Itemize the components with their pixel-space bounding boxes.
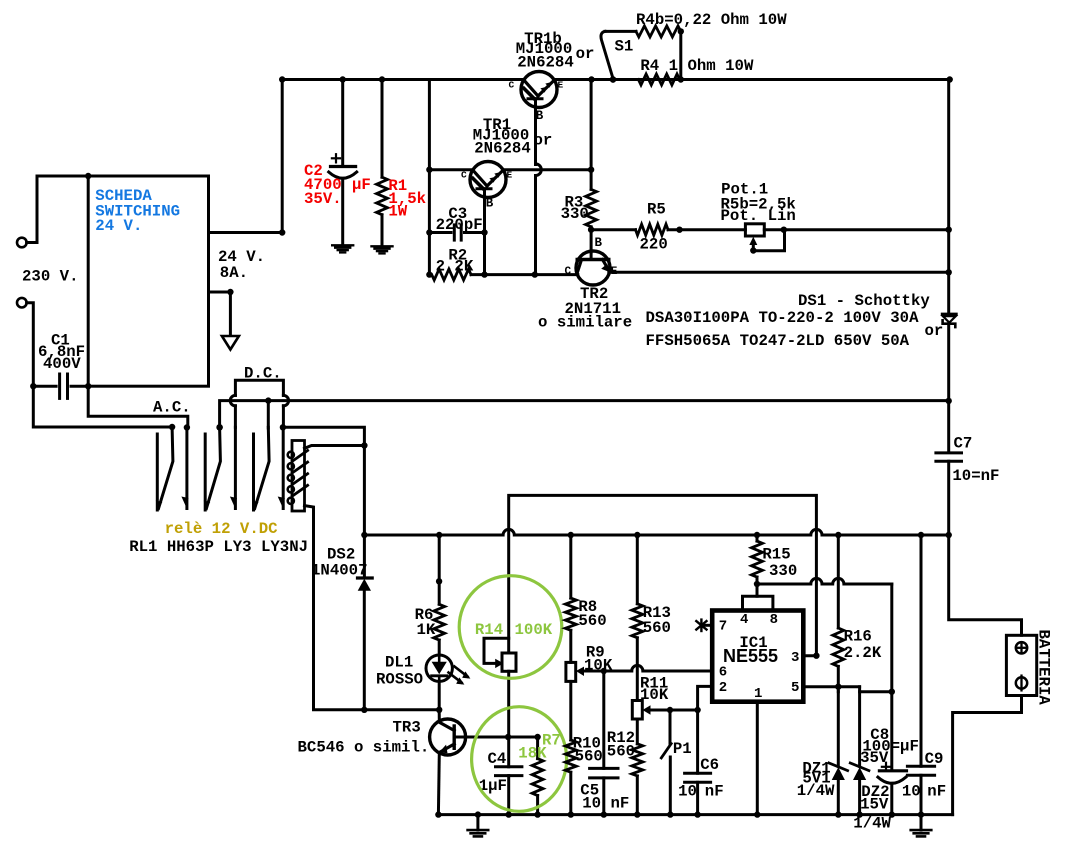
wire pins 4-8 bracket — [743, 581, 773, 611]
svg-text:35V.: 35V. — [304, 190, 342, 208]
label R15 value — [762, 545, 797, 580]
svg-text:1: 1 — [754, 686, 762, 702]
ground C2 — [332, 245, 353, 252]
trimmer R14 — [484, 638, 516, 740]
svg-text:RL1 HH63P LY3 LY3NJ: RL1 HH63P LY3 LY3NJ — [129, 538, 308, 556]
wire hop DC right — [280, 395, 289, 430]
chassis ground triangle — [222, 336, 239, 350]
label R9 value — [584, 644, 613, 675]
label C4 value — [479, 750, 507, 795]
svg-text:B: B — [595, 236, 603, 250]
svg-text:400V: 400V — [43, 355, 81, 373]
label C2 value — [304, 162, 371, 208]
svg-text:15V: 15V — [860, 795, 889, 813]
label R1 value — [388, 177, 426, 221]
node 230V input terminal lower — [17, 298, 27, 308]
label C9 value — [902, 750, 946, 801]
svg-text:1K: 1K — [417, 621, 436, 639]
label TR1b pins — [509, 80, 564, 123]
label R2 value — [436, 247, 474, 276]
resistor R2 — [432, 269, 485, 280]
svg-text:S1: S1 — [615, 38, 634, 56]
label R3 value — [561, 193, 589, 223]
resistor R5 — [591, 224, 745, 235]
label S1 — [615, 38, 634, 56]
svg-text:nF: nF — [611, 795, 630, 813]
resistor R7 — [532, 737, 543, 815]
wire right rail lower — [946, 324, 952, 452]
trimmer R9 — [566, 662, 584, 681]
capacitor C9 — [907, 535, 934, 815]
label C8 value — [860, 726, 919, 767]
svg-text:2,2K: 2,2K — [436, 257, 474, 275]
wire right rail upper — [947, 80, 950, 315]
svg-text:Pot. Lin: Pot. Lin — [721, 207, 796, 225]
wire R3 to TR2 base — [588, 227, 594, 253]
relay pole 2 — [204, 424, 237, 510]
node 230V input terminal upper — [17, 238, 27, 248]
svg-text:10=nF: 10=nF — [952, 467, 999, 485]
wire battery negative — [953, 696, 1022, 815]
svg-text:10: 10 — [902, 783, 921, 801]
wire mid rail — [361, 529, 952, 538]
wire terminal1 to box top-left — [27, 173, 92, 243]
svg-text:R5: R5 — [647, 201, 666, 219]
svg-text:7: 7 — [719, 619, 727, 635]
wire TR2 emitter — [609, 269, 952, 275]
wire box output ground — [209, 289, 234, 336]
symbol no-connect X pin7 — [696, 620, 706, 631]
wire pin3 stub — [803, 654, 816, 657]
capacitor C2 — [329, 76, 357, 243]
svg-text:C9: C9 — [925, 750, 944, 768]
wire rail to R3 — [588, 76, 594, 189]
green circle R7 — [472, 707, 567, 812]
svg-text:C7: C7 — [954, 434, 973, 452]
svg-text:560: 560 — [607, 742, 635, 760]
label 230 V. — [22, 267, 78, 285]
zener DZ2 — [850, 692, 869, 815]
wire rail to box output — [279, 76, 285, 232]
label R10 value — [573, 735, 603, 766]
wire D.C. bracket — [235, 380, 283, 395]
switching supply box — [85, 176, 209, 389]
wire relay output to battery rail — [216, 397, 948, 430]
label NE555 — [723, 646, 778, 666]
wire battery positive — [949, 535, 1022, 635]
svg-text:C6: C6 — [700, 756, 719, 774]
label TR2 — [538, 285, 632, 332]
capacitor C6 — [685, 710, 711, 815]
label R8 value — [578, 598, 606, 630]
svg-text:R4b=0,22 Ohm 10W: R4b=0,22 Ohm 10W — [636, 11, 787, 29]
svg-text:P1: P1 — [673, 740, 692, 758]
label R5 value — [640, 201, 668, 254]
green circle R14 — [459, 576, 562, 679]
svg-text:220: 220 — [640, 236, 668, 254]
label C1 value — [38, 331, 85, 373]
transistor TR3 — [430, 710, 466, 815]
resistor R1 — [377, 76, 388, 244]
capacitor C5 — [590, 671, 618, 815]
resistor R16 — [833, 535, 844, 687]
wire pin5 — [803, 684, 859, 690]
svg-text:BC546 o simil.: BC546 o simil. — [298, 739, 430, 757]
svg-text:nF: nF — [927, 783, 946, 801]
svg-text:or: or — [576, 45, 595, 63]
svg-text:10: 10 — [582, 795, 601, 813]
relay coil — [288, 441, 308, 512]
svg-text:C: C — [461, 170, 467, 181]
wire TR1 emitter to rail vertical — [503, 167, 594, 173]
svg-text:E: E — [507, 170, 513, 181]
wire pin7 stub — [703, 624, 712, 627]
svg-text:ROSSO: ROSSO — [376, 671, 423, 689]
label DS1 — [646, 292, 944, 350]
resistor R10 — [565, 681, 576, 814]
potentiometer Pot.1 R5b — [745, 224, 952, 254]
wire pin5 branch to C8 — [860, 687, 895, 695]
label R16 value — [844, 628, 882, 662]
capacitor C8 — [878, 692, 907, 815]
label TR1b — [516, 30, 595, 72]
transistor TR1 — [470, 162, 506, 198]
battery box — [1006, 635, 1036, 695]
resistor R8 — [565, 535, 576, 662]
wire A.C. upper — [88, 386, 190, 430]
svg-text:3: 3 — [791, 650, 799, 666]
trimmer R11 — [632, 701, 650, 720]
label R12 value — [607, 729, 635, 760]
label R4 — [640, 57, 754, 75]
capacitor C3 — [429, 225, 484, 240]
svg-text:560: 560 — [575, 748, 603, 766]
svg-text:NE555: NE555 — [723, 646, 778, 666]
svg-text:D.C.: D.C. — [244, 365, 282, 383]
svg-text:E: E — [558, 80, 564, 91]
capacitor C7 — [936, 453, 962, 535]
svg-text:C4: C4 — [488, 750, 507, 768]
wire relay to DS2 line — [283, 427, 365, 578]
label R14 100K — [475, 621, 553, 639]
wire box output 24V — [209, 229, 286, 235]
svg-text:5: 5 — [791, 680, 799, 696]
capacitor C1 — [33, 374, 88, 398]
ground symbol right — [911, 815, 932, 837]
label R4b — [636, 11, 787, 29]
wire coil bottom — [305, 506, 443, 713]
svg-text:R15: R15 — [762, 545, 790, 563]
svg-text:DL1: DL1 — [385, 653, 413, 671]
svg-text:2: 2 — [719, 680, 727, 696]
svg-text:10K: 10K — [640, 686, 669, 704]
svg-text:1/4W: 1/4W — [797, 782, 835, 800]
label P1 — [673, 740, 692, 758]
svg-text:A.C.: A.C. — [153, 398, 191, 416]
capacitor C4 — [496, 737, 522, 815]
wire ground rail — [435, 811, 952, 817]
diode DS2 — [358, 578, 373, 710]
svg-text:1N4007: 1N4007 — [311, 561, 367, 579]
svg-text:R4 1 Ohm 10W: R4 1 Ohm 10W — [640, 57, 754, 75]
svg-text:2.2K: 2.2K — [844, 644, 882, 662]
svg-text:330: 330 — [769, 562, 797, 580]
wire R4b to rail — [610, 32, 684, 83]
resistor R13 — [632, 535, 643, 701]
svg-text:10: 10 — [678, 782, 697, 800]
wire R2 to TR2 collector — [485, 273, 578, 276]
svg-text:DSA30I100PA TO-220-2 100V 30A: DSA30I100PA TO-220-2 100V 30A — [646, 309, 920, 327]
svg-text:2N6284: 2N6284 — [474, 139, 530, 157]
svg-text:C: C — [509, 80, 515, 91]
transistor TR1b — [521, 72, 557, 108]
wire R15 node to C8 — [757, 578, 892, 691]
svg-text:330: 330 — [561, 205, 589, 223]
switch P1 — [661, 710, 671, 815]
svg-text:nF: nF — [705, 782, 724, 800]
resistor R4b — [605, 26, 684, 37]
label A.C. — [153, 398, 191, 416]
resistor R15 — [752, 535, 763, 584]
wire hop DC left — [230, 395, 235, 427]
label Pot.1 — [721, 180, 796, 225]
label C3 value — [436, 205, 483, 234]
label R11 value — [640, 675, 669, 704]
battery minus terminal — [1016, 676, 1027, 691]
label relay models — [129, 538, 308, 556]
svg-text:8: 8 — [770, 612, 778, 628]
wire DL1 to TR3 node — [438, 681, 441, 709]
svg-text:560: 560 — [643, 619, 671, 637]
ic IC1 NE555 box — [712, 611, 803, 702]
wire top rail right segment — [554, 76, 953, 82]
svg-text:BATTERIA: BATTERIA — [1035, 630, 1053, 706]
svg-text:or: or — [925, 322, 944, 340]
wire TR1 collector — [429, 168, 473, 171]
label DZ2 — [853, 783, 891, 833]
label C5 value — [580, 782, 629, 813]
led DL1 — [426, 655, 470, 685]
zener DZ1 — [829, 687, 848, 815]
label pin numbers — [719, 612, 800, 702]
wire terminal2 down left side — [27, 303, 176, 430]
wire pin1 to ground — [754, 702, 760, 818]
svg-text:DS1 - Schottky: DS1 - Schottky — [798, 292, 930, 310]
resistor R6 — [434, 535, 445, 655]
resistor R4 — [638, 74, 679, 85]
svg-text:or: or — [534, 131, 553, 149]
label TR1 — [473, 116, 553, 157]
wire coil top — [305, 442, 368, 448]
svg-text:220pF: 220pF — [436, 216, 483, 234]
svg-text:35V: 35V — [860, 749, 889, 767]
svg-text:C: C — [565, 266, 572, 278]
resistor R12 — [632, 719, 643, 815]
label D.C. — [244, 365, 282, 383]
svg-text:2N6284: 2N6284 — [517, 54, 573, 72]
svg-text:560: 560 — [578, 612, 606, 630]
battery plus terminal — [1016, 642, 1027, 653]
wire R11 wiper to pin2 — [651, 686, 713, 713]
label 24V 8A output — [218, 248, 265, 282]
label TR2 pins — [565, 236, 618, 278]
label R13 value — [643, 604, 671, 637]
svg-text:4: 4 — [740, 612, 748, 628]
svg-text:6: 6 — [719, 665, 727, 681]
label DS2 — [311, 546, 367, 580]
svg-text:o similare: o similare — [538, 314, 632, 332]
label C7 value — [952, 434, 999, 485]
label DL1 — [376, 653, 423, 688]
svg-text:18K: 18K — [518, 745, 547, 763]
label IC1 — [739, 634, 767, 652]
svg-text:B: B — [486, 197, 494, 211]
switch S1 — [601, 31, 616, 82]
label TR3 — [298, 719, 430, 757]
svg-text:8A.: 8A. — [220, 264, 248, 282]
label C6 value — [678, 756, 724, 800]
transistor TR2 — [576, 251, 610, 285]
svg-text:TR3: TR3 — [393, 719, 421, 737]
wire rail down to TR1 collector — [426, 80, 432, 278]
svg-text:relè 12 V.DC: relè 12 V.DC — [165, 520, 278, 538]
svg-text:230 V.: 230 V. — [22, 267, 78, 285]
diode DS1 Schottky — [943, 314, 957, 327]
wire pin3 loop — [509, 495, 820, 659]
label TR1 pins — [461, 170, 513, 211]
svg-text:100K: 100K — [515, 621, 553, 639]
label relay — [165, 520, 278, 538]
svg-text:µF: µF — [352, 176, 371, 194]
svg-text:1W: 1W — [388, 203, 407, 221]
label BATTERIA — [1035, 630, 1053, 706]
label R7 18K — [518, 732, 561, 763]
relay pole 1 — [156, 427, 189, 510]
svg-text:FFSH5065A TO247-2LD 650V 50A: FFSH5065A TO247-2LD 650V 50A — [646, 332, 910, 350]
ground symbol left — [468, 815, 489, 837]
label SCHEDA SWITCHING 24V — [95, 187, 180, 235]
label R6 value — [415, 606, 436, 639]
relay pole 3 — [252, 401, 285, 510]
svg-text:R14: R14 — [475, 621, 503, 639]
wire TR1b base to TR2 collector rail — [532, 107, 542, 277]
ground R1 — [372, 246, 393, 253]
svg-text:24 V.: 24 V. — [95, 217, 142, 235]
wire top rail left segment — [282, 78, 524, 81]
resistor R3 — [586, 189, 597, 229]
label DZ1 — [797, 759, 835, 800]
wire TR3 base — [466, 734, 541, 740]
wire R9 wiper to pin6 — [584, 665, 712, 674]
wire TR1 base — [481, 197, 487, 277]
